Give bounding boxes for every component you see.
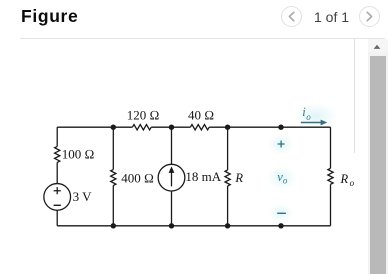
- pagination label "1 of 1": [314, 9, 349, 25]
- svg-text:18 mA: 18 mA: [185, 169, 221, 184]
- current arrow io: [301, 122, 322, 124]
- content right border line: [354, 39, 355, 153]
- resistor R zigzag: [225, 170, 230, 186]
- wire left branch bottom: [56, 210, 58, 226]
- cyan tint halo io: [294, 103, 338, 129]
- node junction dot bottom current source: [169, 223, 174, 228]
- cyan tint halo vo: [267, 166, 297, 190]
- svg-text:o: o: [350, 178, 355, 188]
- current source arrow: [171, 171, 173, 186]
- svg-text:100 Ω: 100 Ω: [62, 147, 95, 162]
- wire bottom rail: [57, 225, 330, 227]
- pagination prev button: [281, 6, 302, 27]
- wire current source branch top: [171, 127, 173, 164]
- scrollbar up button: [368, 39, 388, 52]
- node junction dot bottom vo: [278, 223, 283, 228]
- svg-text:R: R: [340, 172, 349, 186]
- prev chevron icon: [281, 6, 302, 27]
- wire current source branch bottom: [171, 191, 173, 226]
- voltage source minus sign: [54, 204, 61, 206]
- svg-text:o: o: [306, 112, 311, 122]
- voltage source V1 circle 3V: [44, 184, 71, 211]
- resistor 120ohm zigzag: [132, 124, 151, 129]
- wire R branch bottom: [227, 186, 229, 226]
- node junction dot top vo: [278, 125, 283, 130]
- svg-text:400 Ω: 400 Ω: [121, 171, 154, 186]
- resistor 40ohm zigzag: [190, 124, 209, 129]
- wire top rail: [57, 126, 330, 128]
- svg-text:3 V: 3 V: [73, 189, 93, 204]
- wire right branch bottom: [330, 184, 332, 226]
- cyan tint halo plus: [268, 133, 294, 155]
- voltage source plus sign: [54, 187, 61, 194]
- scrollbar track: [368, 39, 388, 274]
- label plus vo: [278, 141, 285, 148]
- next chevron icon: [359, 6, 380, 27]
- scrollbar up arrow: [368, 39, 388, 53]
- resistor 400ohm zigzag: [111, 170, 116, 186]
- svg-text:120 Ω: 120 Ω: [127, 108, 160, 123]
- label minus vo: [277, 212, 286, 214]
- node junction dot top 400ohm: [111, 125, 116, 130]
- header title "Figure": [21, 6, 78, 27]
- wire R branch top: [227, 127, 229, 170]
- pagination next button: [359, 6, 380, 27]
- resistor 100ohm zigzag: [55, 146, 60, 162]
- cyan tint halo minus: [268, 204, 294, 222]
- wire left branch middle: [56, 162, 58, 183]
- svg-text:R: R: [234, 171, 243, 185]
- wire right branch top: [330, 127, 332, 168]
- node junction dot bottom R: [225, 223, 230, 228]
- node junction dot top R: [225, 125, 230, 130]
- resistor Ro zigzag: [328, 168, 333, 184]
- scrollbar thumb: [370, 56, 386, 274]
- svg-text:o: o: [283, 175, 288, 185]
- wire left branch top: [56, 127, 58, 146]
- wire 400ohm branch bottom: [112, 186, 114, 226]
- wire 400ohm branch top: [112, 127, 114, 169]
- header divider line: [20, 38, 385, 39]
- svg-text:40 Ω: 40 Ω: [188, 108, 214, 123]
- current source I1 circle 18mA: [158, 164, 185, 191]
- node junction dot top current source: [169, 125, 174, 130]
- node junction dot bottom 400ohm: [111, 223, 116, 228]
